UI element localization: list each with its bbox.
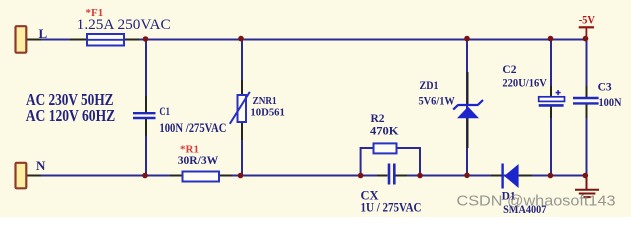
svg-text:C3: C3 <box>598 82 612 94</box>
svg-text:1U / 275VAC: 1U / 275VAC <box>361 201 422 215</box>
svg-text:CSDN @whaosoft143: CSDN @whaosoft143 <box>457 193 616 210</box>
svg-text:C1: C1 <box>159 104 170 118</box>
svg-text:ZD1: ZD1 <box>420 80 439 92</box>
svg-text:100N /275VAC: 100N /275VAC <box>159 120 226 135</box>
svg-text:*R1: *R1 <box>180 144 199 156</box>
svg-text:1.25A 250VAC: 1.25A 250VAC <box>77 17 171 33</box>
svg-text:100N: 100N <box>599 97 623 109</box>
svg-text:10D561: 10D561 <box>250 107 285 119</box>
svg-text:R2: R2 <box>371 113 385 125</box>
svg-text:ZNR1: ZNR1 <box>253 95 277 107</box>
svg-text:*F1: *F1 <box>86 7 104 19</box>
svg-text:220U/16V: 220U/16V <box>502 78 547 90</box>
svg-text:-5V: -5V <box>579 13 596 27</box>
svg-text:AC 120V 60HZ: AC 120V 60HZ <box>26 106 116 125</box>
svg-text:5V6/1W: 5V6/1W <box>419 96 456 108</box>
svg-text:470K: 470K <box>370 126 399 138</box>
svg-text:N: N <box>36 158 46 173</box>
svg-text:L: L <box>39 26 48 41</box>
svg-text:C2: C2 <box>502 64 516 76</box>
